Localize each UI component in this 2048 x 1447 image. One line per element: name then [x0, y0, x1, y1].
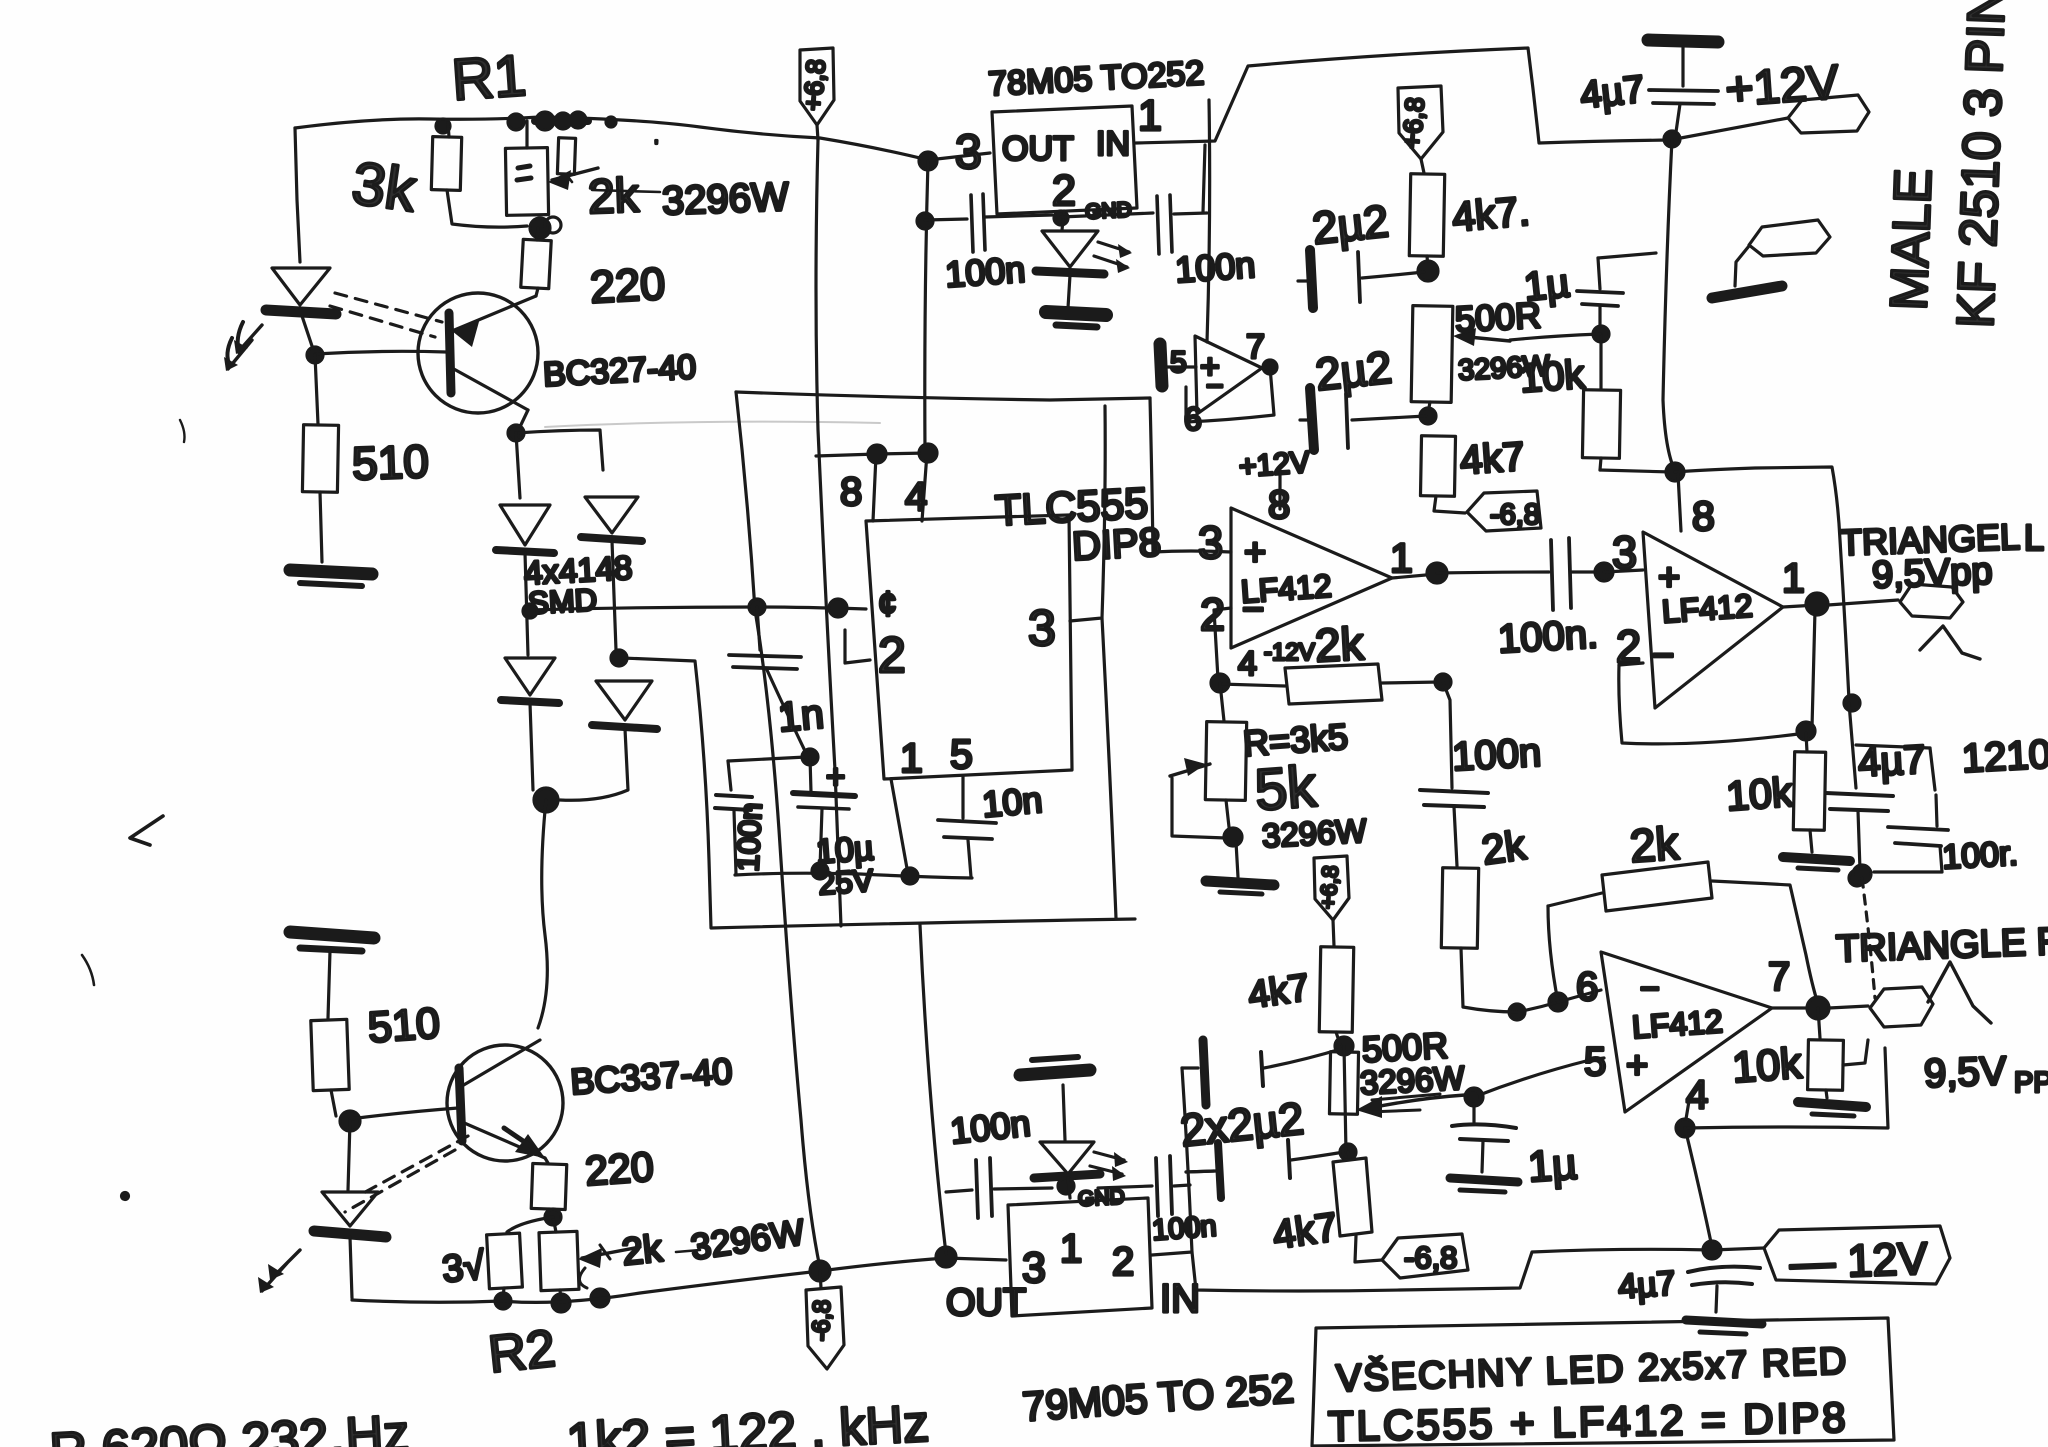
- svg-text:SMD: SMD: [527, 582, 598, 621]
- wire: 0V drop to OUT node: [920, 925, 946, 1254]
- wire to pin6 node: [1509, 1004, 1525, 1020]
- svg-text:100n: 100n: [1151, 1210, 1218, 1246]
- trimmer 2k 3296W (lower): [553, 1217, 556, 1232]
- wire: +6.8 drop line (flag to DIP8 box): [816, 140, 841, 926]
- trimmer 2k 3296W: [525, 121, 528, 148]
- resistor 3k: [448, 123, 449, 137]
- svg-text:−: −: [1640, 970, 1660, 1008]
- connector +12V pin: [1788, 95, 1869, 133]
- resistor 510 (upper): [315, 355, 318, 424]
- capacitor 100n (right of 79M05): [1098, 1186, 1152, 1188]
- svg-text:100n: 100n: [1451, 731, 1542, 780]
- svg-text:3296W: 3296W: [1359, 1059, 1466, 1101]
- svg-text:3296W: 3296W: [1261, 812, 1368, 854]
- svg-text:220: 220: [589, 258, 667, 313]
- svg-text:100r.: 100r.: [1941, 835, 2019, 877]
- svg-text:GND: GND: [1084, 198, 1132, 223]
- flag +6,8 (right chain top): [1398, 86, 1443, 159]
- capacitor 1n: [757, 607, 760, 650]
- svg-text:+12V: +12V: [1238, 446, 1311, 484]
- resistor 4k7 (to 500R lower chain): [1319, 947, 1353, 1033]
- op-amp U4B LF412: [1643, 532, 1783, 708]
- wire: +12V drop line: [1663, 139, 1675, 471]
- resistor 4k7 (second): [1420, 436, 1455, 497]
- label TRIANGLE R: [1835, 921, 2048, 971]
- transistor Q1 BC327-40: [418, 293, 538, 413]
- trimmer 5k R=3k5: [1220, 683, 1224, 721]
- output node C: [1772, 1006, 1815, 1009]
- diode D1: [500, 505, 550, 545]
- svg-text:10n: 10n: [981, 779, 1044, 825]
- op-amp U4A LF412: [1231, 508, 1392, 648]
- svg-text:¢: ¢: [878, 585, 897, 623]
- capacitor 1u (C input filter): [1472, 1097, 1475, 1122]
- svg-text:3k: 3k: [348, 149, 421, 224]
- label +12V: [1724, 56, 1841, 117]
- wire: diode bus into pin 6: [528, 607, 866, 610]
- svg-text:1: 1: [1060, 1227, 1082, 1271]
- svg-text:3: 3: [1198, 517, 1223, 568]
- svg-text:1: 1: [900, 735, 923, 781]
- svg-text:8: 8: [840, 470, 862, 514]
- svg-text:100n: 100n: [730, 802, 769, 873]
- wire: supply to pin 8: [1600, 470, 1672, 472]
- wire: top +6.8V rail: [295, 117, 990, 160]
- flag -6,8 (center bottom): [820, 1271, 821, 1288]
- svg-text:R2: R2: [486, 1320, 558, 1385]
- svg-text:+: +: [1244, 532, 1266, 574]
- capacitor 10u 25V: [826, 758, 845, 795]
- LED D6 (at U2 gnd): [1042, 231, 1098, 267]
- svg-text:10k: 10k: [1725, 769, 1795, 820]
- wire: TLC output bus (y=405): [736, 392, 1150, 400]
- diode D4: [596, 681, 652, 720]
- svg-text:-6,8: -6,8: [1404, 1240, 1457, 1275]
- svg-text:510: 510: [366, 999, 441, 1052]
- flag -6,8 (bottom): [1382, 1234, 1468, 1278]
- svg-text:+6,8: +6,8: [797, 58, 831, 111]
- resistor 2k (vertical): [1479, 822, 1529, 874]
- small angle mark left: [130, 816, 163, 845]
- svg-text:BC327-40: BC327-40: [542, 348, 697, 394]
- svg-text:100n: 100n: [948, 1102, 1032, 1151]
- svg-text:1210: 1210: [1961, 732, 2048, 781]
- svg-text:10k: 10k: [1518, 353, 1586, 401]
- svg-text:100n: 100n: [1174, 244, 1257, 290]
- op-amp U4C LF412: [1601, 952, 1772, 1112]
- svg-text:TLC555 + LF412 = DIP8: TLC555 + LF412 = DIP8: [1328, 1394, 1849, 1447]
- resistor 4k7 (bottom chain top): [1335, 1037, 1353, 1055]
- svg-text:DIP8: DIP8: [1071, 520, 1162, 569]
- svg-text:2: 2: [878, 627, 906, 683]
- svg-text:4: 4: [1238, 645, 1257, 683]
- svg-text:IN: IN: [1096, 125, 1130, 163]
- svg-text:3: 3: [1028, 600, 1056, 656]
- svg-text:1: 1: [1138, 92, 1162, 140]
- flag +6,8 (mid): [1314, 856, 1349, 920]
- svg-text:1µ: 1µ: [1526, 1140, 1578, 1191]
- svg-text:4µ7: 4µ7: [1578, 69, 1646, 117]
- wire: -12V rail: [1192, 1248, 1764, 1291]
- wire: to op-amp A pin3: [1150, 398, 1231, 552]
- node below 1n: [802, 749, 818, 765]
- capacitor 2u2 (lower of pair): [1186, 1171, 1214, 1172]
- svg-text:10k: 10k: [1731, 1039, 1804, 1092]
- capacitor 1u + resistor 10k: [1522, 261, 1572, 309]
- diode D3: [505, 658, 555, 695]
- ground: [290, 570, 372, 574]
- svg-text:LF412: LF412: [1240, 567, 1333, 609]
- output node B: [1783, 605, 1817, 607]
- LED D7 (lower-left): [348, 1121, 350, 1190]
- node: blobs on top rail: [436, 119, 450, 133]
- svg-text:4k7.: 4k7.: [1450, 188, 1531, 241]
- pin4 node and wire: [1685, 1095, 1690, 1125]
- capacitor 4u7 (neg rail): [1617, 1264, 1677, 1306]
- pin 4: [922, 453, 927, 521]
- capacitor 2u2 (lower): [1313, 341, 1394, 400]
- dashed optical link Q2: [358, 1136, 468, 1196]
- label R1: [450, 43, 529, 113]
- svg-text:1n: 1n: [776, 691, 825, 741]
- pin 2 hook: [845, 630, 870, 663]
- svg-text:OUT: OUT: [1002, 130, 1074, 168]
- ground (U2): [1046, 312, 1106, 315]
- svg-text:L: L: [2024, 517, 2044, 558]
- svg-text:OUT: OUT: [946, 1282, 1026, 1324]
- svg-text:5: 5: [950, 731, 973, 777]
- resistor 4k7 (top right): [1409, 174, 1444, 257]
- resistor 4k7 (bottom): [1348, 1152, 1350, 1160]
- svg-text:7: 7: [1768, 955, 1790, 999]
- LED D8 (at 79M05 gnd): [1040, 1142, 1094, 1174]
- svg-text:6: 6: [1576, 965, 1598, 1009]
- wire: pin5 from 500R wiper node: [1465, 1088, 1483, 1106]
- svg-text:LF412: LF412: [1631, 1003, 1724, 1045]
- capacitor 100n (vertical text): [728, 761, 731, 790]
- wire: IN side up to top right rail: [1136, 48, 1788, 143]
- wire: vertical 0V from rail: [925, 161, 928, 453]
- svg-text:4: 4: [905, 475, 927, 519]
- resistor 10k (B load): [1806, 733, 1807, 752]
- output node A: [1392, 574, 1437, 578]
- LED D5 (top-left): [295, 128, 300, 262]
- svg-text:KF 2510 3 PIN: KF 2510 3 PIN: [1947, 0, 2017, 329]
- capacitor 100n (left of 78M05): [925, 219, 967, 220]
- IC U1 TLC555 DIP8: [994, 479, 1162, 569]
- transistor Q2 BC337-40: [350, 1108, 458, 1119]
- svg-text:1µ: 1µ: [1522, 261, 1572, 309]
- svg-text:−: −: [1206, 370, 1224, 403]
- capacitor 100n (coupling A to B): [1437, 572, 1549, 573]
- svg-text:5: 5: [1170, 346, 1187, 379]
- svg-text:3296W: 3296W: [661, 175, 789, 223]
- regulator U2 78M05 TO252: [987, 54, 1205, 103]
- svg-text:+: +: [1626, 1045, 1648, 1087]
- trimmer 500R 3296W (bottom): [1329, 1052, 1358, 1114]
- svg-text:5k: 5k: [1253, 754, 1320, 823]
- svg-text:-6,8: -6,8: [808, 1299, 836, 1341]
- info box: [1312, 1318, 1894, 1446]
- ground (lower-left): [290, 932, 374, 938]
- svg-text:8: 8: [1692, 493, 1715, 539]
- svg-text:': ': [655, 137, 658, 153]
- capacitor 100n (left of 79M05): [946, 1190, 972, 1192]
- svg-text:2µ2: 2µ2: [1310, 195, 1391, 254]
- node: diode string junction: [534, 788, 558, 812]
- op-amp U3 (buffer 5/6/7): [1160, 344, 1162, 386]
- svg-text:4k7: 4k7: [1246, 967, 1313, 1017]
- svg-text:+6,8: +6,8: [1396, 96, 1430, 149]
- svg-text:MALE: MALE: [1880, 168, 1943, 312]
- svg-text:4k7: 4k7: [1459, 435, 1526, 483]
- wire: long vertical bus to -6.8 flag: [736, 392, 820, 1268]
- svg-text:+12V: +12V: [1724, 56, 1841, 117]
- faint pencil line: [545, 422, 880, 427]
- trimmer 500R 3296W: [1411, 306, 1453, 403]
- svg-text:PP: PP: [2014, 1067, 2048, 1099]
- label KF 2510 3 PIN MALE: [1947, 0, 2017, 329]
- bottom notes: [19, 1395, 930, 1447]
- connector pin 2: [1749, 220, 1830, 256]
- svg-text:1: 1: [1390, 535, 1413, 581]
- wire: IN node riser: [1152, 1068, 1192, 1255]
- ground (above D8): [1020, 1070, 1090, 1075]
- svg-text:220: 220: [584, 1143, 655, 1194]
- svg-text:9,5V: 9,5V: [1923, 1049, 2007, 1096]
- svg-text:3: 3: [955, 126, 982, 179]
- pin2 wire + node: [1214, 608, 1231, 679]
- svg-text:7: 7: [1246, 328, 1265, 366]
- connector -12V: [1764, 1226, 1950, 1284]
- node GND of U2: [1054, 211, 1068, 225]
- svg-text:— 12V: — 12V: [1789, 1233, 1928, 1289]
- svg-text:2k: 2k: [1628, 817, 1681, 872]
- flag -6,8: [1467, 491, 1541, 531]
- wire: bottom rail: [352, 1258, 1006, 1302]
- capacitor 10n: [961, 777, 964, 818]
- wire: bottom rail of 555 block: [735, 873, 972, 878]
- svg-text:100n.: 100n.: [1497, 612, 1599, 661]
- dashed optical link Q1: [335, 293, 442, 322]
- svg-text:510: 510: [351, 435, 430, 490]
- svg-text:2: 2: [1200, 589, 1225, 640]
- capacitor 4u7 (+12V): [1648, 40, 1718, 42]
- capacitor 100r: [1888, 827, 1948, 846]
- pin 8: [873, 455, 876, 521]
- wire: pin3 riser: [1070, 406, 1105, 621]
- wire: junction down to Q2: [538, 800, 547, 1028]
- regulator U5 79M05 TO252: [1008, 1198, 1152, 1316]
- svg-text:2: 2: [1112, 1240, 1134, 1284]
- svg-text:4µ7: 4µ7: [1617, 1264, 1677, 1306]
- svg-text:2k: 2k: [1314, 617, 1366, 672]
- svg-text:100n: 100n: [944, 249, 1027, 295]
- pin2 + feedback B: [1619, 663, 1643, 665]
- node: rail junction: [919, 152, 937, 170]
- svg-text:-6,8: -6,8: [1490, 499, 1540, 531]
- svg-text:LF412: LF412: [1661, 587, 1754, 629]
- resistor 10k (C load): [1731, 1039, 1804, 1092]
- capacitor 4u7 1210: [1844, 695, 1860, 711]
- connector TRIANGLE L out: [1900, 584, 1963, 618]
- svg-text:2k: 2k: [587, 169, 641, 224]
- svg-text:9,5Vpp: 9,5Vpp: [1871, 551, 1993, 597]
- stray mark left margin: [180, 420, 185, 442]
- svg-text:-12V: -12V: [1264, 639, 1315, 666]
- svg-text:−: −: [1652, 635, 1674, 677]
- resistor 2k (feedback C): [1548, 906, 1558, 1002]
- resistor 2k (feedback A): [1220, 684, 1285, 686]
- connector TRIANGLE R out: [1870, 987, 1933, 1027]
- svg-text:4k7: 4k7: [1270, 1205, 1340, 1258]
- svg-text:2µ2: 2µ2: [1313, 341, 1394, 400]
- svg-text:2k: 2k: [1479, 822, 1529, 874]
- diode D2: [585, 497, 638, 533]
- pin 1 wire: [891, 779, 908, 874]
- svg-text:3√: 3√: [441, 1245, 487, 1291]
- capacitor 2x2u2 (upper): [1178, 1092, 1306, 1156]
- capacitor 100n (A out chain): [1451, 731, 1542, 780]
- resistor 510 (lower): [311, 1019, 349, 1090]
- wire: 2u2 common to IN node: [1207, 100, 1210, 342]
- svg-text:+: +: [826, 758, 845, 795]
- resistor 220 (lower): [545, 1158, 548, 1163]
- label R2: [486, 1320, 558, 1385]
- svg-text:+6,8: +6,8: [1315, 865, 1343, 910]
- resistor 3k (lower aux): [507, 1217, 553, 1232]
- wire: collector loop to diodes: [508, 425, 524, 441]
- svg-text:2: 2: [1052, 167, 1076, 215]
- resistor 220: [537, 228, 538, 240]
- capacitor 100n (right of 78M05): [1061, 213, 1153, 217]
- svg-text:1: 1: [1782, 555, 1805, 601]
- svg-text:2k: 2k: [620, 1228, 665, 1274]
- flag +6,8 (top): [800, 48, 834, 125]
- capacitor 2u2 (upper): [1310, 195, 1391, 254]
- svg-text:R1: R1: [450, 43, 529, 113]
- wire: DIP8 outline left/bottom: [622, 658, 1135, 928]
